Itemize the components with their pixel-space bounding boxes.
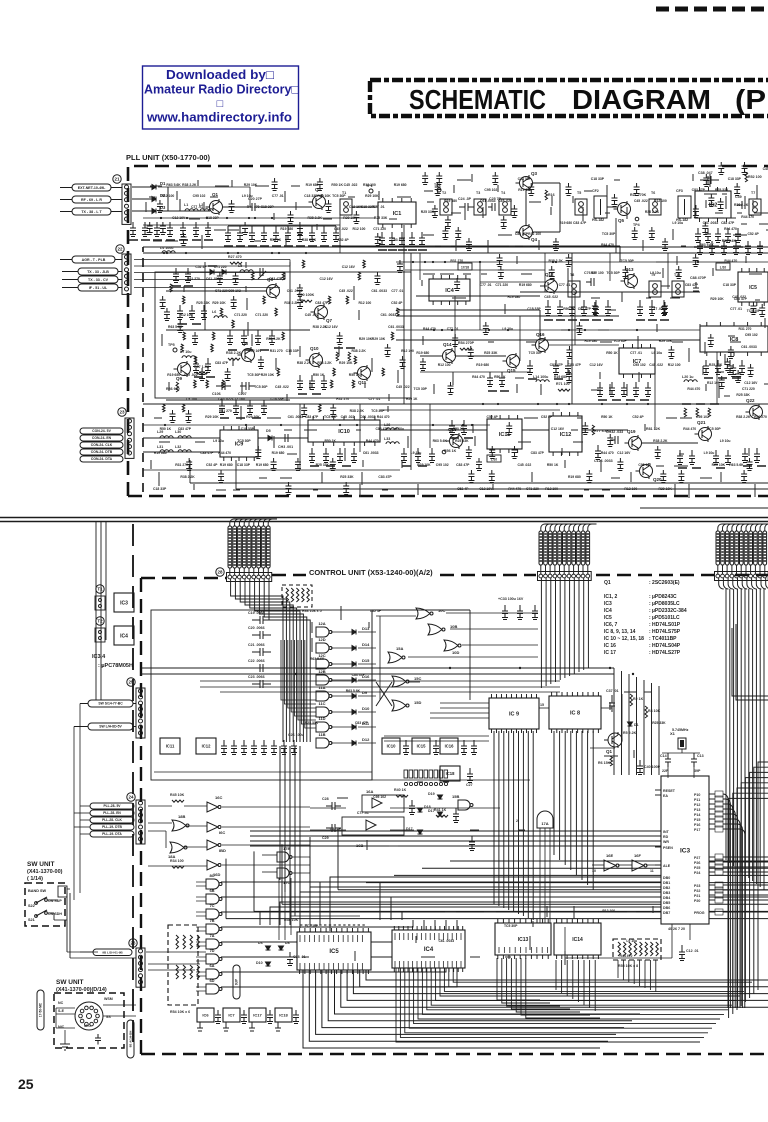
wire 12C out: [331, 663, 352, 665]
ic IC3 mcu: [661, 776, 709, 924]
resistor R2: [630, 694, 633, 706]
svg-text:L33: L33: [384, 437, 390, 441]
svg-text:C61 .0033: C61 .0033: [741, 345, 757, 349]
resistor array R55 elements: [618, 942, 621, 956]
wire pll hline 296: [416, 295, 540, 297]
svg-text:D12: D12: [362, 737, 370, 742]
nor gate 10D: [444, 640, 458, 651]
wire pll vert 545: [544, 253, 546, 292]
node ref T1: [96, 585, 104, 593]
svg-text:2: 2: [516, 819, 518, 823]
caps row under Q12 area: [545, 300, 551, 316]
node ref 21: [113, 175, 121, 183]
svg-text:R38 2.2K: R38 2.2K: [645, 210, 660, 214]
wire lozenge 9b links: [146, 951, 206, 953]
svg-text:Q14: Q14: [443, 342, 452, 347]
nand gate 11D: [316, 722, 329, 732]
svg-text:12D: 12D: [318, 637, 325, 642]
svg-text:C52 4P: C52 4P: [337, 238, 349, 242]
net label IF-51-UL: [78, 284, 118, 291]
svg-text:: µPD2332C-384: : µPD2332C-384: [649, 608, 687, 614]
svg-text:C83 47P: C83 47P: [355, 721, 369, 725]
resistor array R54 elements: [176, 935, 179, 949]
svg-text:R50 1K: R50 1K: [349, 373, 361, 377]
svg-text:R29 10K: R29 10K: [365, 194, 379, 198]
svg-text:C88 470P: C88 470P: [690, 276, 707, 280]
svg-text:D1: D1: [160, 181, 166, 186]
wire CF2 to Q5: [607, 206, 617, 208]
svg-text:RF - 69 - L R: RF - 69 - L R: [81, 198, 102, 202]
svg-text:L9 10u: L9 10u: [411, 451, 422, 455]
wire pll lozenge stubs: [80, 805, 90, 807]
net label CON-24-EN: [80, 435, 123, 441]
wire 12A out: [331, 631, 352, 633]
svg-text:C83 47P: C83 47P: [515, 232, 529, 236]
wire Q12 rail: [520, 291, 700, 293]
wire pll hline 345: [549, 344, 619, 346]
wire pll hline 270: [405, 269, 545, 271]
svg-text:DB6: DB6: [663, 906, 670, 910]
svg-text:R54 10K x 6: R54 10K x 6: [170, 1010, 190, 1014]
wire to IC1: [352, 206, 378, 208]
svg-text:R34 100: R34 100: [170, 859, 184, 863]
ic IC4 main: [392, 930, 465, 968]
capacitor C20 coupling: [252, 203, 263, 211]
svg-text:15A: 15A: [396, 646, 403, 651]
svg-text:24: 24: [128, 795, 134, 800]
caps under IC10: [309, 448, 315, 463]
svg-text:TC5 30P: TC5 30P: [620, 259, 634, 263]
diode D1: [152, 185, 156, 190]
svg-text:C12 16V: C12 16V: [342, 265, 356, 269]
svg-text:L9 10u: L9 10u: [704, 451, 715, 455]
SW unit1 border: [25, 883, 65, 926]
svg-text:C77 .01: C77 .01: [272, 194, 284, 198]
svg-text:R38 2.2K: R38 2.2K: [182, 183, 197, 187]
net label CON-24-5V: [80, 428, 123, 434]
wire top rail: [158, 210, 210, 212]
svg-text:L9 10u: L9 10u: [242, 194, 253, 198]
decoupling caps under IC1: [379, 232, 385, 247]
svg-text:R29 10K: R29 10K: [417, 463, 431, 467]
resistor R30: [300, 300, 312, 302]
svg-text:15B: 15B: [452, 794, 459, 799]
connector J22 pin strip: [122, 254, 131, 294]
svg-text:IC5: IC5: [749, 285, 757, 291]
svg-text:C52 4P: C52 4P: [206, 463, 218, 467]
svg-text:C83 47P: C83 47P: [685, 283, 699, 287]
node ref T2: [96, 617, 104, 625]
svg-text:: µPC78M05H: : µPC78M05H: [98, 663, 133, 669]
svg-text:R50 1K: R50 1K: [563, 307, 575, 311]
wire long horizontals rightside y860-930: [450, 860, 768, 862]
svg-text:: HD74LS01P: : HD74LS01P: [649, 622, 681, 628]
svg-text:40 26 7 20: 40 26 7 20: [668, 927, 685, 931]
wire nor outputs right: [446, 612, 538, 614]
svg-text:C95 102: C95 102: [484, 188, 497, 192]
svg-text:C45 .022: C45 .022: [649, 363, 663, 367]
svg-text:C28: C28: [322, 797, 329, 801]
svg-text:P11: P11: [694, 798, 700, 802]
net label TX-38-LT: [72, 208, 111, 215]
svg-text:DB1: DB1: [663, 881, 670, 885]
diode D9: [352, 694, 356, 699]
svg-text:C95 102: C95 102: [638, 463, 651, 467]
svg-text:IC4: IC4: [120, 633, 128, 639]
svg-text:R63 5.6K: R63 5.6K: [346, 689, 361, 693]
svg-text:IC6, 7: IC6, 7: [604, 622, 618, 628]
inductor L7: [182, 356, 195, 358]
wire ic11 to ic12: [522, 429, 549, 431]
svg-text:R19 680: R19 680: [220, 463, 233, 467]
wire 6B in: [196, 896, 206, 898]
svg-text:P24: P24: [694, 871, 700, 875]
svg-text:C45 .022: C45 .022: [305, 313, 319, 317]
wire pll vert 717b: [716, 352, 718, 404]
svg-text:R50 1K: R50 1K: [313, 373, 325, 377]
svg-text:D3: D3: [160, 205, 166, 210]
wire pll vert 575: [574, 292, 576, 345]
page-top dashed frame fragment: [656, 7, 768, 12]
svg-text:R25 33K: R25 33K: [652, 721, 666, 725]
diodes D3 D8 D10: [266, 946, 271, 950]
bias network row 2: [225, 226, 231, 242]
svg-text:16F: 16F: [634, 853, 641, 858]
nand gate 8C: [206, 879, 219, 889]
svg-text:R19 680: R19 680: [507, 295, 520, 299]
svg-text:IC4: IC4: [445, 288, 455, 294]
VCO cluster frame: [155, 272, 411, 398]
wire pll exit 2: [236, 488, 768, 490]
net label CON-24-CLK: [80, 442, 123, 448]
svg-text:C83 47P: C83 47P: [305, 415, 319, 419]
capacitor C45 trim: [258, 268, 266, 279]
diode D15: [352, 662, 356, 667]
svg-text:Q4: Q4: [531, 237, 538, 242]
crystal filter CF2: [594, 196, 607, 218]
svg-text:C77 .01: C77 .01: [191, 205, 203, 209]
svg-text:D15: D15: [362, 658, 370, 663]
IC5 pin labels: [299, 935, 301, 942]
crystal filter CF3: [678, 196, 691, 218]
svg-text:11A: 11A: [318, 685, 325, 690]
svg-text:C18 33P: C18 33P: [206, 216, 220, 220]
svg-text:P14: P14: [694, 813, 700, 817]
svg-text:R16: R16: [548, 193, 555, 197]
svg-text:R29 10K: R29 10K: [372, 337, 386, 341]
svg-text:Q7: Q7: [326, 318, 333, 323]
svg-text:IC15: IC15: [417, 743, 427, 748]
svg-text:C45 .022: C45 .022: [275, 385, 289, 389]
svg-text:I6C: I6C: [219, 830, 225, 835]
nand gate 12B: [316, 675, 329, 685]
svg-text:: µPD8243C: : µPD8243C: [649, 594, 677, 600]
svg-text:EXT-NET-10-49L: EXT-NET-10-49L: [78, 186, 106, 190]
svg-text:C71 220: C71 220: [742, 387, 755, 391]
svg-text:10D: 10D: [452, 650, 459, 655]
svg-text:TC5 30P: TC5 30P: [371, 409, 385, 413]
svg-text:C83 47P: C83 47P: [721, 221, 735, 225]
resistor R6: [610, 756, 613, 766]
svg-text:C61 .0033: C61 .0033: [480, 199, 496, 203]
svg-text:9B A/1H-BH: 9B A/1H-BH: [129, 1031, 133, 1048]
transistor Q10: [306, 352, 323, 368]
svg-text:T5: T5: [577, 191, 581, 195]
transistor Q16: [532, 337, 549, 353]
svg-text:C95 102: C95 102: [373, 795, 386, 799]
label box L/10 b: [487, 455, 501, 462]
svg-text:C24 .3P: C24 .3P: [458, 197, 472, 201]
inductor L6: [214, 316, 227, 318]
svg-text:R38 2.2K: R38 2.2K: [302, 238, 317, 242]
svg-text:IF - 51 - UL: IF - 51 - UL: [89, 286, 108, 290]
svg-text:C95 102: C95 102: [633, 363, 646, 367]
transistor Q8: [238, 347, 255, 363]
net label TX-33-CV: [78, 276, 118, 283]
svg-text:L32: L32: [175, 445, 181, 449]
svg-text:R31 270: R31 270: [450, 259, 463, 263]
inductor L5: [240, 270, 253, 272]
nand gate 11C: [316, 707, 329, 717]
wire gap stubs: [640, 507, 768, 509]
ic IC14: [554, 923, 601, 955]
svg-text:C71 220: C71 220: [255, 313, 268, 317]
svg-text:C83 47P: C83 47P: [550, 363, 564, 367]
inner long-dash vertical: [132, 524, 134, 1048]
svg-text:R55 10K x 8: R55 10K x 8: [618, 964, 638, 968]
svg-text:R38 2.2K: R38 2.2K: [284, 301, 299, 305]
logic frame right vertical: [371, 610, 373, 780]
testpoint TP8: [442, 450, 446, 454]
caps row under IC7: [597, 382, 603, 397]
svg-text:C52 4P: C52 4P: [457, 487, 469, 491]
svg-text:R25 33K: R25 33K: [715, 188, 729, 192]
svg-text:R54 270P: R54 270P: [458, 341, 475, 345]
capacitor CH3: [280, 434, 288, 442]
svg-text:C95 102: C95 102: [436, 463, 449, 467]
svg-text:R44 470: R44 470: [377, 415, 390, 419]
node ref 22: [116, 245, 124, 253]
svg-text:C126 .0033: C126 .0033: [594, 459, 613, 463]
svg-text:S21: S21: [28, 918, 35, 922]
svg-text:C52 4P: C52 4P: [747, 232, 759, 236]
svg-text:15C: 15C: [414, 676, 421, 681]
svg-text:PLL-19- DTA: PLL-19- DTA: [102, 832, 122, 836]
svg-text:R19 680: R19 680: [394, 183, 407, 187]
nand gate 11B: [316, 738, 329, 748]
svg-text:R25 33K: R25 33K: [316, 463, 330, 467]
resistor array R66 box: [282, 585, 312, 607]
svg-text:R5 2.2K: R5 2.2K: [623, 731, 637, 735]
connector J21 pin strip: [122, 184, 131, 224]
svg-text:11B: 11B: [318, 732, 325, 737]
svg-text:T6: T6: [651, 191, 655, 195]
svg-text:IC13: IC13: [518, 937, 529, 943]
svg-text:EA: EA: [663, 794, 668, 798]
net label AGR-T-PLB: [72, 256, 115, 263]
svg-text:R25 33K: R25 33K: [484, 351, 498, 355]
svg-text:IC18: IC18: [446, 771, 456, 776]
wire right rail: [396, 339, 700, 341]
testpoint TP4: [635, 217, 639, 221]
svg-text:SW UNIT: SW UNIT: [27, 861, 54, 868]
svg-text:C12 16V: C12 16V: [590, 363, 604, 367]
svg-text:R12 100: R12 100: [363, 183, 376, 187]
net label TX-33-JLB: [78, 268, 118, 275]
svg-text:R25 33K: R25 33K: [709, 363, 723, 367]
svg-text:CON-24- EN: CON-24- EN: [92, 436, 112, 440]
svg-text:R12 100: R12 100: [545, 487, 558, 491]
svg-text:C77 .01: C77 .01: [559, 283, 571, 287]
svg-text:15D: 15D: [414, 700, 421, 705]
svg-text:5.745MHz: 5.745MHz: [672, 728, 689, 732]
svg-text:L9 10u: L9 10u: [626, 939, 637, 943]
net label PLL-28-5V: [90, 803, 134, 809]
svg-text:: HD74LS27P: : HD74LS27P: [649, 650, 681, 656]
svg-text:Q8: Q8: [242, 341, 249, 346]
caps row right col 243: [697, 241, 703, 255]
IC3 right pin number boxes: [715, 791, 723, 797]
nand gate 12D: [316, 643, 329, 653]
capacitor C30: [453, 808, 459, 823]
wire crystal to IC3: [667, 767, 669, 778]
net label PLL-19-DTA: [90, 831, 134, 837]
svg-text:L9 10u: L9 10u: [650, 271, 661, 275]
testpoint TP5: [173, 348, 177, 352]
wire hbus 668-676: [141, 667, 614, 669]
wire ic10 out: [380, 429, 487, 431]
wire bus B down: [540, 578, 542, 688]
transistor Q11: [354, 365, 371, 381]
svg-text:R44 470: R44 470: [741, 215, 754, 219]
svg-text:L31: L31: [157, 445, 163, 449]
svg-text:R38 2.2K: R38 2.2K: [266, 337, 281, 341]
svg-text:NC: NC: [58, 1001, 64, 1005]
svg-text:C18 33P: C18 33P: [527, 307, 541, 311]
svg-text:L14 100u: L14 100u: [533, 375, 548, 379]
svg-text:R25 33K: R25 33K: [305, 721, 319, 725]
nand gate 6D: [206, 984, 219, 994]
caps row bottom vco: [219, 400, 225, 415]
wire pll hline 187: [158, 186, 250, 188]
svg-text:39P: 39P: [694, 769, 701, 773]
nand gate 7C: [206, 909, 219, 919]
svg-text:7D: 7D: [209, 948, 214, 953]
svg-text:R44 470: R44 470: [247, 205, 260, 209]
svg-text:11C: 11C: [318, 701, 325, 706]
svg-text:PLL-28- CLK: PLL-28- CLK: [102, 818, 122, 822]
resistor R27: [230, 262, 242, 264]
caps under Q10: [297, 375, 303, 390]
svg-text:R44 470: R44 470: [218, 451, 231, 455]
svg-text:C18 33P: C18 33P: [518, 177, 532, 181]
transistor Q22: [746, 404, 763, 420]
svg-text:R63 5.6K: R63 5.6K: [433, 439, 448, 443]
svg-text:TC5 30P: TC5 30P: [606, 271, 620, 275]
svg-text:22: 22: [117, 247, 123, 252]
wire frame right area: [736, 624, 768, 700]
switch S22: [35, 902, 38, 905]
wire vco rail1: [166, 290, 266, 292]
svg-text:Q5: Q5: [618, 218, 625, 223]
wire pll hline 282: [480, 281, 545, 283]
wire gate out bus: [221, 882, 380, 920]
svg-text:CF3: CF3: [676, 189, 683, 193]
ic IC5 pll: [738, 272, 768, 302]
svg-text:IC7: IC7: [228, 1012, 235, 1017]
svg-text:IC10: IC10: [338, 429, 350, 435]
svg-text:R27 470: R27 470: [228, 255, 242, 259]
wire 8C in: [196, 881, 206, 883]
net label PLL-19-DTB: [90, 824, 134, 830]
svg-text:TC5 30P: TC5 30P: [504, 924, 518, 928]
inverter 16F: [632, 860, 644, 871]
svg-text:IC4: IC4: [604, 608, 612, 614]
svg-text:R29 10K: R29 10K: [261, 373, 275, 377]
ic IC5 main: [297, 932, 371, 970]
wire crossover 15C 15D: [376, 682, 392, 706]
svg-text:C83 47P: C83 47P: [269, 277, 283, 281]
svg-text:CF2: CF2: [592, 189, 599, 193]
capacitor C25: [488, 203, 495, 211]
resistor R71: [558, 389, 570, 391]
inductor L29: [160, 436, 173, 438]
svg-text:C83 47P: C83 47P: [378, 475, 392, 479]
regulator IC4 small: [114, 626, 134, 645]
wire vco vert2: [289, 262, 291, 355]
svg-text:C14: C14: [660, 754, 667, 758]
nand gate 17C: [277, 868, 289, 878]
svg-text:9UP: 9UP: [235, 978, 239, 985]
svg-text:S-E: S-E: [58, 1009, 65, 1013]
wire staircase fan from IC5 bottom: [303, 970, 600, 1048]
svg-text:C23 .0066: C23 .0066: [248, 675, 265, 679]
diode D3: [152, 209, 156, 214]
svg-text:R12 100: R12 100: [624, 487, 637, 491]
svg-text:R50 1K: R50 1K: [406, 397, 418, 401]
svg-text:C12 .01: C12 .01: [686, 949, 699, 953]
wire pll hline 218: [143, 217, 375, 219]
svg-text:TX - 33 - CV: TX - 33 - CV: [88, 278, 109, 282]
ic IC8 right: [700, 326, 768, 352]
wire 7D in: [196, 956, 206, 958]
diode D16: [352, 678, 356, 683]
svg-text:R25 33K: R25 33K: [736, 393, 750, 397]
component clutter PLL top-left: [150, 185, 162, 187]
switch S21: [35, 915, 38, 918]
wire gates inner links: [379, 616, 381, 700]
svg-text:R19 680: R19 680: [554, 375, 567, 379]
capacitor C38: [700, 176, 719, 184]
svg-text:10C: 10C: [438, 608, 445, 613]
wire pll vert 300b: [299, 404, 301, 470]
ic IC18 ctrl: [440, 766, 460, 781]
wire pll vert 430b: [429, 404, 431, 448]
net label PLL-28-CLK: [90, 817, 134, 823]
svg-text:C45 .022: C45 .022: [184, 373, 198, 377]
capacitor C24: [459, 203, 474, 211]
svg-text:C12 16V: C12 16V: [320, 277, 334, 281]
svg-text:R25 33K: R25 33K: [340, 475, 354, 479]
svg-text:DB7: DB7: [663, 911, 670, 915]
svg-text:R19 680: R19 680: [559, 221, 572, 225]
capacitor C14: [665, 753, 671, 767]
svg-text:C12 16V: C12 16V: [172, 216, 186, 220]
transistor Q6: [263, 283, 280, 299]
svg-text:R19 680: R19 680: [519, 283, 532, 287]
svg-text:6B: 6B: [209, 888, 214, 893]
svg-text:Q22: Q22: [746, 398, 755, 403]
